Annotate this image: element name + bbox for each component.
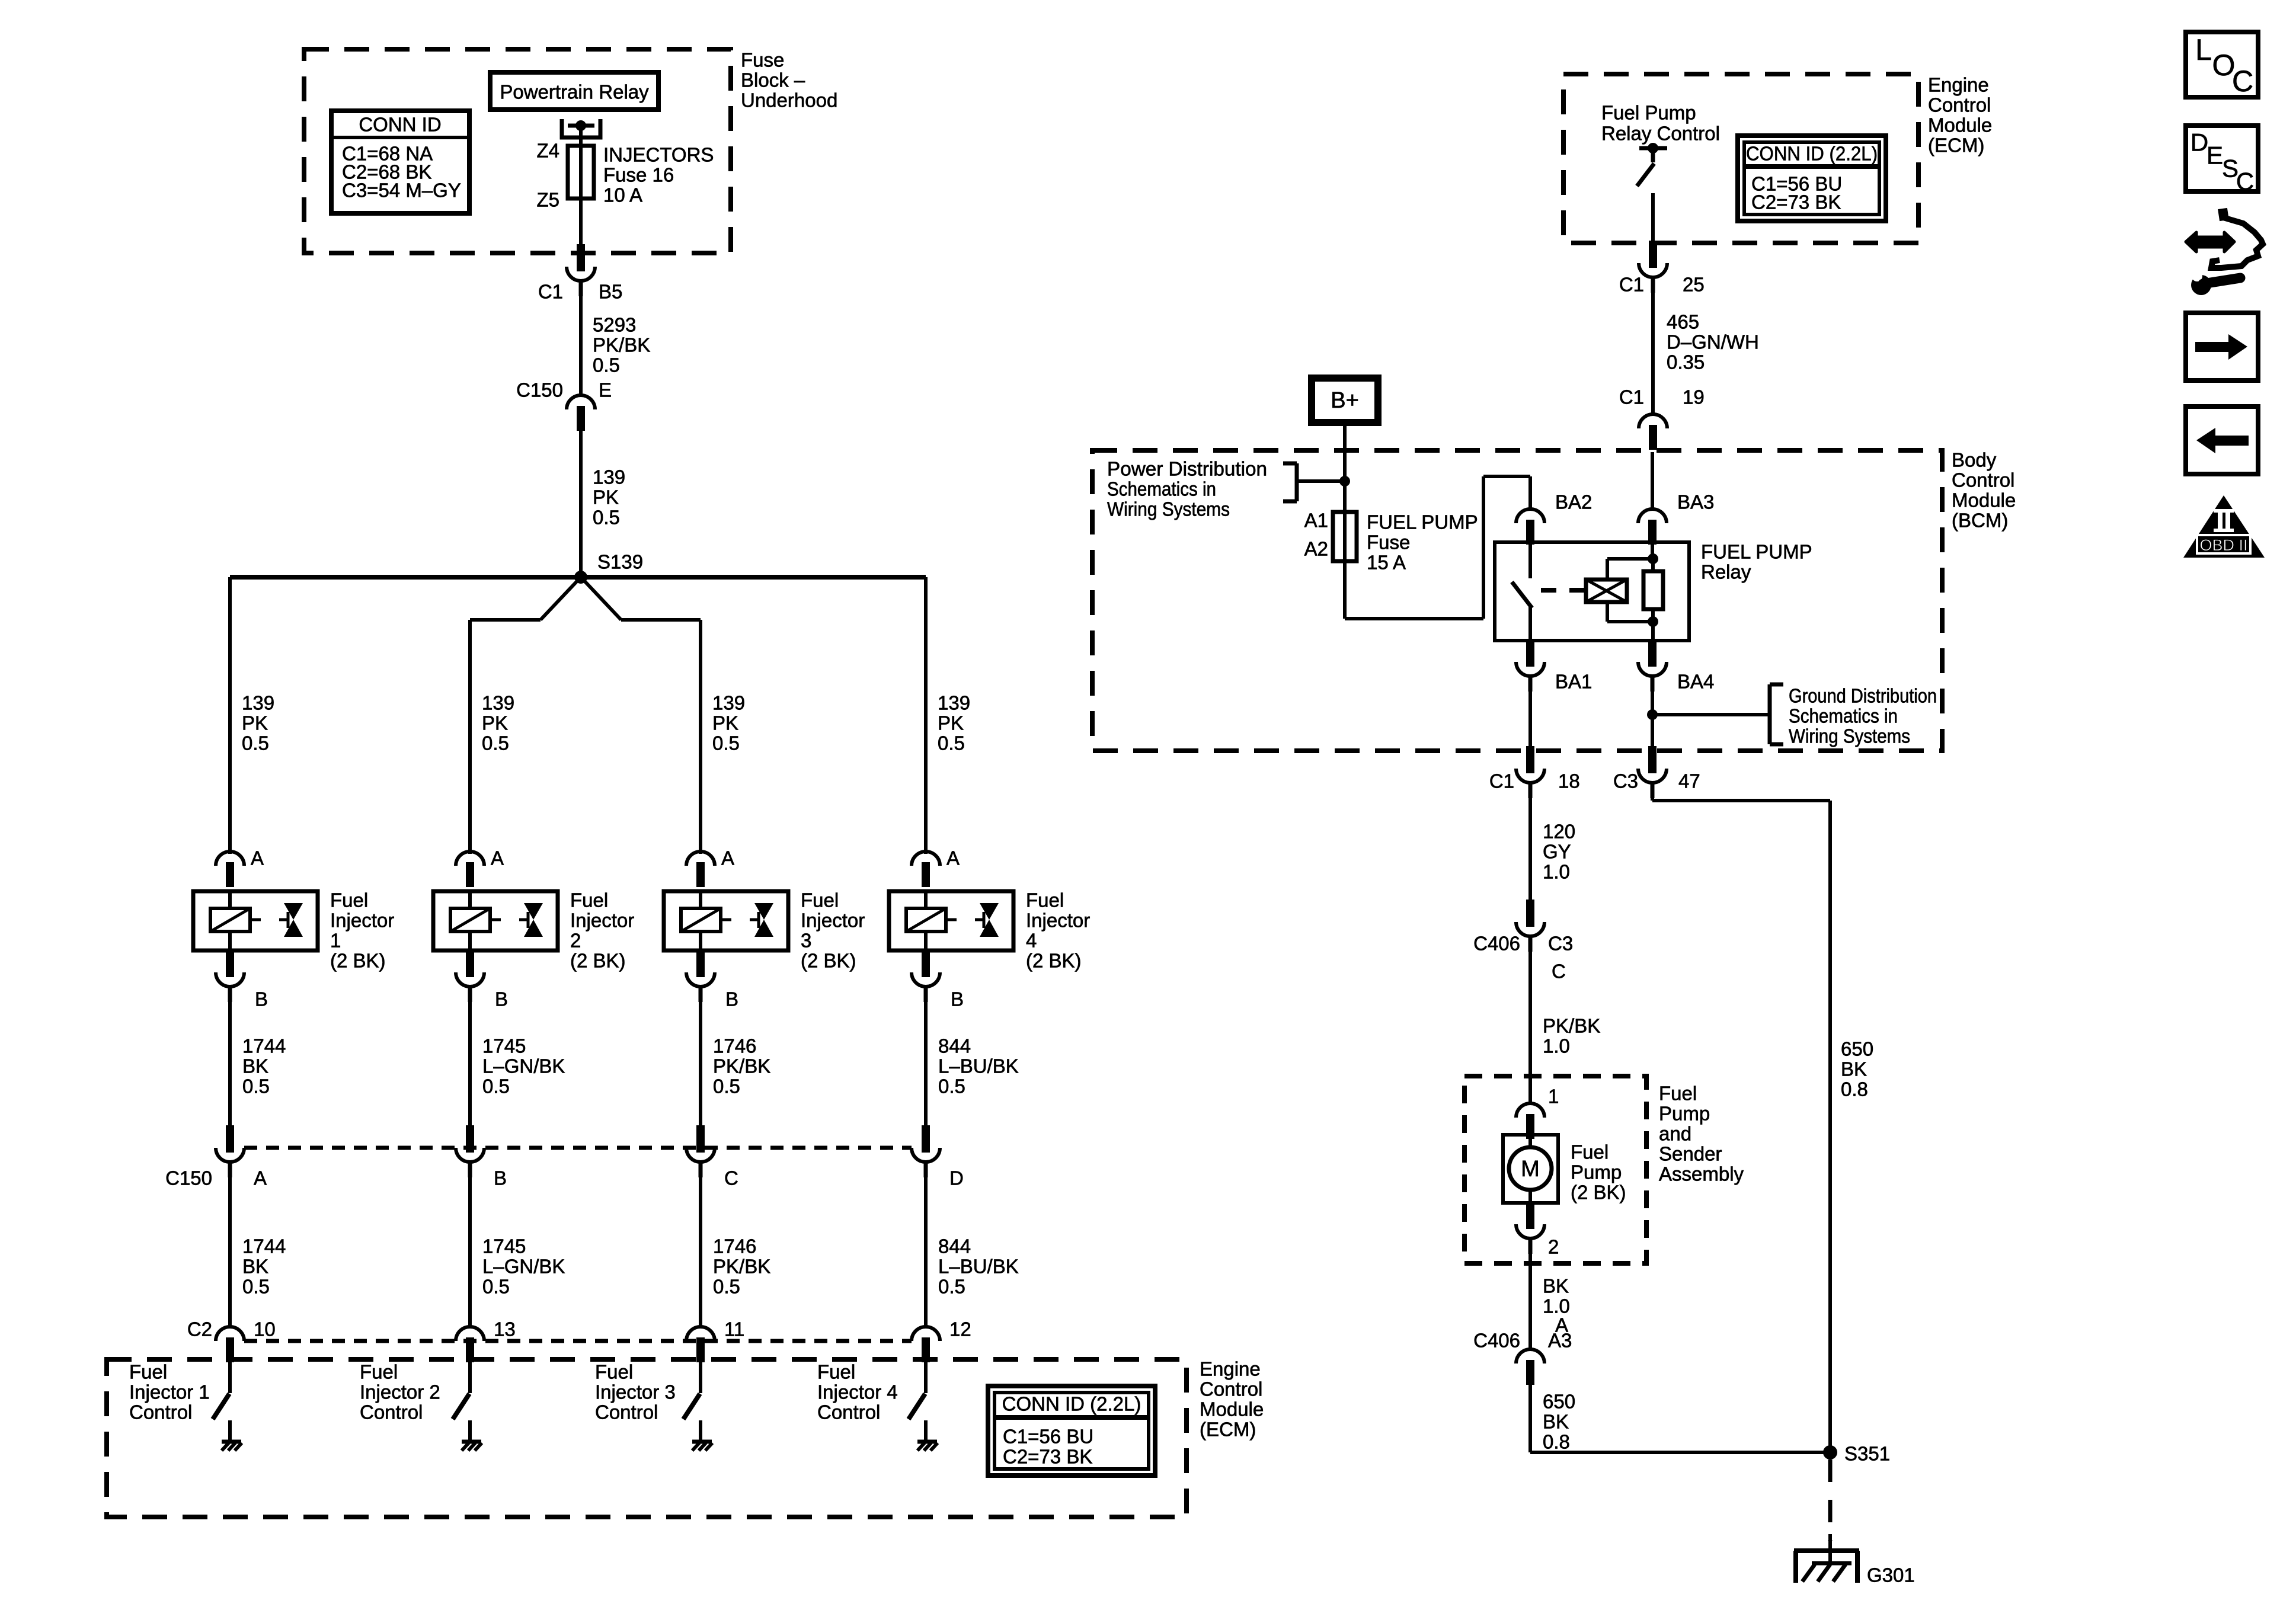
wire label 5293 PK/BK 0.5: [593, 314, 650, 376]
wire C150 B to C2: [468, 1162, 472, 1327]
svg-text:C150: C150: [516, 379, 563, 401]
connector C406 A3: [1473, 1330, 1572, 1385]
relay junction node bottom: [1648, 616, 1658, 641]
svg-text:1: 1: [330, 930, 341, 952]
svg-text:BK: BK: [242, 1256, 268, 1278]
svg-text:Body: Body: [1952, 449, 1997, 471]
svg-text:PK/BK: PK/BK: [593, 334, 650, 356]
svg-text:Fuel: Fuel: [330, 889, 368, 911]
fuse FUEL PUMP 15A: [1333, 512, 1357, 561]
svg-text:FUEL PUMP: FUEL PUMP: [1367, 511, 1478, 533]
icon forward arrow box: [2186, 313, 2258, 380]
wire injector 3 to C150: [699, 987, 702, 1125]
wire BA1 to C1 18: [1528, 676, 1532, 748]
pin label Z5: [536, 189, 559, 211]
svg-text:139: 139: [593, 466, 625, 488]
svg-text:1744: 1744: [242, 1035, 286, 1057]
relay junction node top: [1648, 542, 1658, 564]
svg-text:Wiring Systems: Wiring Systems: [1107, 498, 1230, 520]
wire C150 A to C2: [228, 1162, 232, 1327]
svg-text:3: 3: [801, 930, 811, 952]
svg-text:S139: S139: [597, 551, 643, 573]
svg-text:PK: PK: [593, 486, 619, 508]
wire fuse 16 to connector C1 B5: [579, 199, 583, 245]
connector C2 pin 10: [216, 1318, 276, 1363]
svg-text:0.5: 0.5: [482, 1076, 510, 1097]
fuel pump relay label: [1701, 541, 1812, 583]
svg-text:BK: BK: [1543, 1411, 1569, 1433]
wire C406 to fuel pump pin 1: [1528, 936, 1532, 1103]
svg-text:(BCM): (BCM): [1952, 510, 2008, 532]
svg-text:Z5: Z5: [536, 189, 559, 211]
svg-text:(2 BK): (2 BK): [1571, 1182, 1626, 1204]
svg-text:1.0: 1.0: [1543, 1035, 1570, 1057]
svg-text:BA2: BA2: [1555, 491, 1592, 513]
connector BA2: [1516, 491, 1592, 545]
svg-text:Injector 3: Injector 3: [595, 1381, 676, 1403]
svg-text:Ground Distribution: Ground Distribution: [1789, 685, 1937, 707]
svg-text:Fuel: Fuel: [1659, 1083, 1697, 1105]
svg-text:Fuel: Fuel: [129, 1361, 167, 1383]
svg-text:Powertrain Relay: Powertrain Relay: [500, 81, 649, 103]
connector C150 pin B: [456, 1125, 507, 1189]
wire relay contact to fuse 16: [579, 126, 583, 148]
svg-text:0.5: 0.5: [938, 1276, 965, 1298]
svg-text:E: E: [2207, 142, 2223, 169]
svg-text:Fuse: Fuse: [1367, 532, 1410, 553]
svg-text:Pump: Pump: [1571, 1161, 1622, 1183]
svg-text:0.5: 0.5: [242, 1076, 270, 1097]
wire injector 2 to C150: [468, 987, 472, 1125]
fuel pump fuse value label: [1367, 511, 1478, 574]
fuel pump relay box: [1495, 542, 1689, 641]
splice S351: [1823, 1443, 1890, 1465]
svg-text:C3: C3: [1613, 770, 1638, 792]
fuel injector 2 control switch: [453, 1362, 470, 1419]
svg-text:1: 1: [1548, 1086, 1559, 1108]
svg-text:C: C: [2236, 168, 2254, 196]
wire C150 E to splice S139: [579, 431, 583, 577]
svg-text:47: 47: [1678, 770, 1700, 792]
engine control module label bottom: [1200, 1358, 1264, 1441]
svg-text:0.5: 0.5: [938, 732, 965, 754]
svg-text:A: A: [251, 847, 264, 869]
pin label Z4: [536, 140, 559, 162]
ground injector 2 driver: [462, 1420, 482, 1451]
fuel injector 3 label: [801, 889, 865, 972]
svg-text:Injector 4: Injector 4: [817, 1381, 898, 1403]
connector pin A injector 3: [686, 847, 734, 888]
svg-text:(2 BK): (2 BK): [330, 950, 386, 972]
svg-text:D–GN/WH: D–GN/WH: [1667, 331, 1759, 353]
svg-text:Sender: Sender: [1659, 1143, 1722, 1165]
wire label BK 1.0 A: [1543, 1275, 1570, 1336]
fuel pump and sender assembly box: [1464, 1076, 1646, 1263]
engine control module box bottom: [107, 1359, 1187, 1517]
connector pin A injector 1: [216, 847, 264, 888]
svg-text:BK: BK: [1841, 1058, 1867, 1080]
svg-text:139: 139: [938, 692, 970, 714]
svg-text:0.5: 0.5: [593, 507, 620, 529]
connector BA4: [1638, 639, 1714, 693]
pin label A1: [1304, 510, 1328, 532]
svg-text:1745: 1745: [482, 1035, 526, 1057]
svg-text:C: C: [2232, 65, 2253, 98]
relay switch contact: [1512, 544, 1532, 641]
svg-text:A: A: [721, 847, 734, 869]
svg-text:Injector: Injector: [330, 910, 394, 932]
svg-text:Fuel: Fuel: [1026, 889, 1064, 911]
connector C3 47: [1613, 746, 1700, 798]
svg-text:Control: Control: [595, 1401, 658, 1423]
icon LOC box: [2186, 32, 2258, 98]
fuel injector 1: [193, 891, 318, 950]
icon OBD II warning triangle: [2183, 495, 2265, 558]
wire label 1744 lower: [242, 1235, 286, 1298]
svg-text:Injector: Injector: [801, 910, 865, 932]
svg-text:PK: PK: [242, 712, 268, 734]
svg-text:Fuel: Fuel: [595, 1361, 633, 1383]
wire label 139 PK 0.5 branch 1: [242, 692, 274, 754]
wire C150 D to C2: [924, 1162, 928, 1327]
fuel injector 4 control label: [817, 1361, 898, 1423]
svg-text:Fuel: Fuel: [801, 889, 839, 911]
svg-text:Schematics in: Schematics in: [1789, 705, 1898, 727]
svg-text:Fuse: Fuse: [741, 49, 784, 71]
svg-text:B: B: [494, 1167, 507, 1189]
svg-text:B: B: [255, 988, 268, 1010]
svg-text:Wiring Systems: Wiring Systems: [1789, 725, 1910, 747]
svg-text:0.5: 0.5: [482, 1276, 510, 1298]
powertrain relay label box: [490, 72, 658, 110]
svg-text:A1: A1: [1304, 510, 1328, 532]
svg-text:L–GN/BK: L–GN/BK: [482, 1055, 565, 1077]
power distribution bracket: [1283, 463, 1345, 501]
svg-text:Power Distribution: Power Distribution: [1107, 458, 1267, 480]
svg-text:(ECM): (ECM): [1200, 1419, 1256, 1441]
wire label 650 BK 0.8 bottom: [1543, 1391, 1575, 1453]
svg-text:0.5: 0.5: [713, 1276, 740, 1298]
connector pin B injector 3: [686, 950, 738, 1010]
wire branch 1 from S139: [228, 577, 232, 854]
fuel injector 4 label: [1026, 889, 1090, 972]
svg-text:0.5: 0.5: [712, 732, 740, 754]
svg-text:0.35: 0.35: [1667, 351, 1705, 373]
conn id table fuse block: [331, 111, 469, 213]
wire C406 A3 to S351: [1530, 1380, 1830, 1452]
svg-text:C3=54 M–GY: C3=54 M–GY: [342, 180, 461, 201]
wire label 139 PK 0.5 branch 4: [938, 692, 970, 754]
connector C1 18: [1489, 746, 1580, 798]
svg-text:A: A: [946, 847, 960, 869]
svg-text:B: B: [725, 988, 738, 1010]
svg-text:C: C: [724, 1167, 738, 1189]
fuel injector 2: [433, 891, 558, 950]
svg-text:0.5: 0.5: [242, 732, 269, 754]
svg-text:Control: Control: [1200, 1378, 1262, 1400]
fuse block underhood outline box: [304, 49, 731, 253]
wire fuel pump pin 2 to C406 A3: [1528, 1238, 1532, 1349]
svg-text:18: 18: [1558, 770, 1580, 792]
wire label 650 BK 0.8 right: [1841, 1038, 1873, 1100]
svg-text:BK: BK: [1543, 1275, 1569, 1297]
svg-text:(2 BK): (2 BK): [570, 950, 626, 972]
icon DESC box: [2186, 126, 2258, 196]
connector C406 C3 C: [1473, 900, 1573, 982]
svg-text:C1: C1: [538, 281, 563, 303]
conn id 2.2L table bottom: [988, 1386, 1155, 1475]
svg-text:D: D: [949, 1167, 964, 1189]
wire label 139 PK 0.5 main: [593, 466, 625, 529]
fuel pump motor: [1503, 1135, 1558, 1203]
battery feed B+: [1312, 378, 1378, 422]
svg-text:C1=56 BU: C1=56 BU: [1003, 1426, 1093, 1448]
svg-text:Control: Control: [817, 1401, 880, 1423]
powertrain relay contact symbol: [562, 119, 600, 137]
icon back arrow box: [2186, 406, 2258, 474]
junction ground distribution node: [1647, 709, 1658, 720]
svg-text:INJECTORS: INJECTORS: [603, 144, 714, 166]
wire branch 2 from S139: [470, 577, 581, 854]
svg-text:(2 BK): (2 BK): [801, 950, 856, 972]
fuel pump assembly label: [1659, 1083, 1744, 1185]
svg-text:Injector 2: Injector 2: [360, 1381, 440, 1403]
svg-text:Fuel: Fuel: [1571, 1141, 1609, 1163]
svg-text:L: L: [2195, 33, 2212, 66]
svg-text:25: 25: [1683, 274, 1705, 296]
wire S139 horizontal bus: [230, 575, 926, 580]
connector pin A injector 4: [912, 847, 960, 888]
svg-text:Fuel: Fuel: [570, 889, 608, 911]
svg-text:0.5: 0.5: [593, 354, 620, 376]
ground label G301: [1867, 1564, 1915, 1586]
fuel injector 2 label: [570, 889, 634, 972]
ground distribution reference label: [1789, 685, 1937, 747]
svg-text:L–BU/BK: L–BU/BK: [938, 1055, 1019, 1077]
engine control module label top right: [1928, 74, 1992, 156]
engine control module box top right: [1563, 74, 1918, 243]
svg-text:Control: Control: [1928, 94, 1991, 116]
connector BA1: [1516, 639, 1592, 693]
svg-text:139: 139: [482, 692, 514, 714]
fuel injector 1 control label: [129, 1361, 210, 1423]
svg-text:Injector 1: Injector 1: [129, 1381, 210, 1403]
svg-text:15 A: 15 A: [1367, 552, 1406, 574]
wire label 139 PK 0.5 branch 3: [712, 692, 745, 754]
fuse block underhood label: [741, 49, 837, 111]
svg-text:C3: C3: [1548, 933, 1573, 955]
svg-text:139: 139: [242, 692, 274, 714]
wire C3 47 to S351 right side: [1652, 783, 1830, 1452]
svg-text:S351: S351: [1844, 1443, 1890, 1465]
svg-text:Engine: Engine: [1928, 74, 1989, 96]
fuel injector 1 label: [330, 889, 394, 972]
pin label A2: [1304, 538, 1328, 560]
svg-text:(2 BK): (2 BK): [1026, 950, 1082, 972]
wire C1 19 to BA3: [1651, 452, 1654, 509]
junction B+ node: [1339, 476, 1350, 486]
svg-text:1744: 1744: [242, 1235, 286, 1257]
connector C150 pin D: [912, 1125, 964, 1189]
svg-text:Injector: Injector: [570, 910, 634, 932]
svg-text:B: B: [495, 988, 508, 1010]
svg-text:C2=73 BK: C2=73 BK: [1751, 191, 1841, 213]
svg-text:L–BU/BK: L–BU/BK: [938, 1256, 1019, 1278]
svg-text:PK: PK: [938, 712, 964, 734]
connector C1 25: [1619, 241, 1705, 296]
svg-text:BA4: BA4: [1677, 671, 1714, 693]
connector C2 pin 13: [456, 1318, 516, 1363]
connector pin A injector 2: [456, 847, 504, 888]
connector C150 pin A: [216, 1125, 267, 1189]
wire label PK/BK 1.0: [1543, 1015, 1600, 1057]
conn id 2.2L table top right: [1738, 136, 1886, 221]
svg-text:G301: G301: [1867, 1564, 1915, 1586]
svg-text:C1: C1: [1489, 770, 1514, 792]
svg-text:19: 19: [1683, 386, 1705, 408]
svg-text:C2: C2: [187, 1318, 212, 1340]
wire fuse to relay switch BA2: [1345, 476, 1530, 619]
svg-text:1.0: 1.0: [1543, 861, 1570, 883]
connector C150 label: [165, 1167, 212, 1189]
svg-text:844: 844: [938, 1035, 971, 1057]
svg-text:A3: A3: [1548, 1330, 1572, 1352]
icon diagnostic shortcut: [2186, 209, 2263, 295]
svg-text:Control: Control: [129, 1401, 192, 1423]
connector fuel pump pin 1: [1516, 1086, 1559, 1140]
svg-text:BA1: BA1: [1555, 671, 1592, 693]
svg-text:Schematics in: Schematics in: [1107, 478, 1216, 500]
svg-text:PK/BK: PK/BK: [713, 1256, 770, 1278]
svg-text:B: B: [951, 988, 964, 1010]
svg-text:Assembly: Assembly: [1659, 1163, 1744, 1185]
wire injector 1 to C150: [228, 987, 232, 1125]
svg-text:844: 844: [938, 1235, 971, 1257]
svg-text:Engine: Engine: [1200, 1358, 1261, 1380]
svg-text:0.5: 0.5: [482, 732, 509, 754]
svg-text:A: A: [491, 847, 504, 869]
svg-text:CONN ID: CONN ID: [359, 114, 441, 136]
svg-text:650: 650: [1543, 1391, 1575, 1413]
svg-text:A2: A2: [1304, 538, 1328, 560]
connector C2 pin 12: [912, 1318, 971, 1363]
connector pin B injector 1: [216, 950, 268, 1010]
svg-text:10: 10: [254, 1318, 276, 1340]
svg-text:Module: Module: [1928, 114, 1992, 136]
fuel injector 1 control switch: [213, 1362, 230, 1419]
svg-text:11: 11: [724, 1318, 744, 1340]
svg-text:FUEL PUMP: FUEL PUMP: [1701, 541, 1812, 563]
connector BA3: [1638, 491, 1714, 545]
svg-text:Block –: Block –: [741, 69, 805, 91]
svg-text:2: 2: [570, 930, 581, 952]
svg-text:0.8: 0.8: [1543, 1431, 1570, 1453]
svg-text:0.5: 0.5: [713, 1076, 740, 1097]
svg-text:Relay Control: Relay Control: [1601, 123, 1720, 145]
wire label 844 upper: [938, 1035, 1019, 1097]
fuel injector 3 control label: [595, 1361, 676, 1423]
connector pin B injector 2: [456, 950, 508, 1010]
svg-text:1745: 1745: [482, 1235, 526, 1257]
svg-text:C406: C406: [1473, 933, 1520, 955]
svg-text:C2=73 BK: C2=73 BK: [1003, 1446, 1092, 1468]
fuel pump label: [1571, 1141, 1626, 1204]
svg-text:M: M: [1521, 1157, 1540, 1182]
connector fuel pump pin 2: [1516, 1202, 1559, 1258]
relay actuation dashed link: [1541, 588, 1586, 593]
fuel injector 4 control switch: [909, 1362, 926, 1419]
wire label 465 D-GN/WH 0.35: [1667, 311, 1759, 373]
svg-text:Z4: Z4: [536, 140, 559, 162]
connector C2 pin 11: [686, 1318, 744, 1363]
power distribution reference label: [1107, 458, 1267, 520]
svg-text:L–GN/BK: L–GN/BK: [482, 1256, 565, 1278]
connector C2 dashed pass-through line: [244, 1339, 912, 1343]
svg-text:Control: Control: [360, 1401, 423, 1423]
svg-text:2: 2: [1548, 1236, 1559, 1258]
wire B+ to fuel pump fuse: [1343, 422, 1347, 514]
wire branch 4 from S139: [924, 577, 928, 854]
connector C1 19: [1619, 386, 1705, 450]
svg-text:Module: Module: [1952, 489, 2016, 511]
svg-text:Pump: Pump: [1659, 1103, 1710, 1125]
svg-text:Fuse 16: Fuse 16: [603, 164, 674, 186]
svg-text:E: E: [599, 379, 612, 401]
svg-text:PK/BK: PK/BK: [1543, 1015, 1600, 1037]
wire label 1744 upper: [242, 1035, 286, 1097]
wire label 1745 upper: [482, 1035, 565, 1097]
svg-text:13: 13: [494, 1318, 516, 1340]
fuel injector 2 control label: [360, 1361, 440, 1423]
wire C1 25 to C1 19: [1651, 293, 1655, 414]
fuel pump relay control switch: [1637, 143, 1667, 186]
body control module label: [1952, 449, 2016, 532]
svg-text:Fuel Pump: Fuel Pump: [1601, 102, 1696, 124]
ground distribution bracket: [1652, 684, 1783, 744]
ground G301: [1794, 1534, 1859, 1583]
svg-text:465: 465: [1667, 311, 1699, 333]
svg-text:Control: Control: [1952, 469, 2014, 491]
svg-text:B+: B+: [1331, 388, 1359, 413]
svg-text:Injector: Injector: [1026, 910, 1090, 932]
svg-text:CONN ID (2.2L): CONN ID (2.2L): [1746, 143, 1878, 165]
ground injector 1 driver: [222, 1420, 242, 1451]
body control module box: [1092, 450, 1942, 751]
svg-text:Module: Module: [1200, 1398, 1264, 1420]
svg-text:OBD II: OBD II: [2199, 536, 2247, 554]
svg-text:120: 120: [1543, 821, 1575, 843]
svg-text:C150: C150: [165, 1167, 212, 1189]
svg-text:C1: C1: [1619, 386, 1644, 408]
wire S351 to G301 dashed: [1828, 1459, 1833, 1541]
svg-text:C406: C406: [1473, 1330, 1520, 1352]
svg-text:650: 650: [1841, 1038, 1873, 1060]
wire label 844 lower: [938, 1235, 1019, 1298]
svg-text:GY: GY: [1543, 841, 1571, 863]
svg-text:D: D: [2191, 129, 2208, 156]
svg-text:5293: 5293: [593, 314, 636, 336]
ground injector 3 driver: [692, 1420, 712, 1451]
wire injector 4 to C150: [924, 987, 928, 1125]
relay resistor: [1643, 559, 1663, 622]
svg-text:PK: PK: [482, 712, 508, 734]
svg-text:C: C: [1552, 961, 1566, 982]
svg-text:0.8: 0.8: [1841, 1078, 1868, 1100]
splice S139: [574, 551, 643, 584]
connector C2 label: [187, 1318, 212, 1340]
svg-text:C1: C1: [1619, 274, 1644, 296]
svg-text:Fuel: Fuel: [360, 1361, 398, 1383]
